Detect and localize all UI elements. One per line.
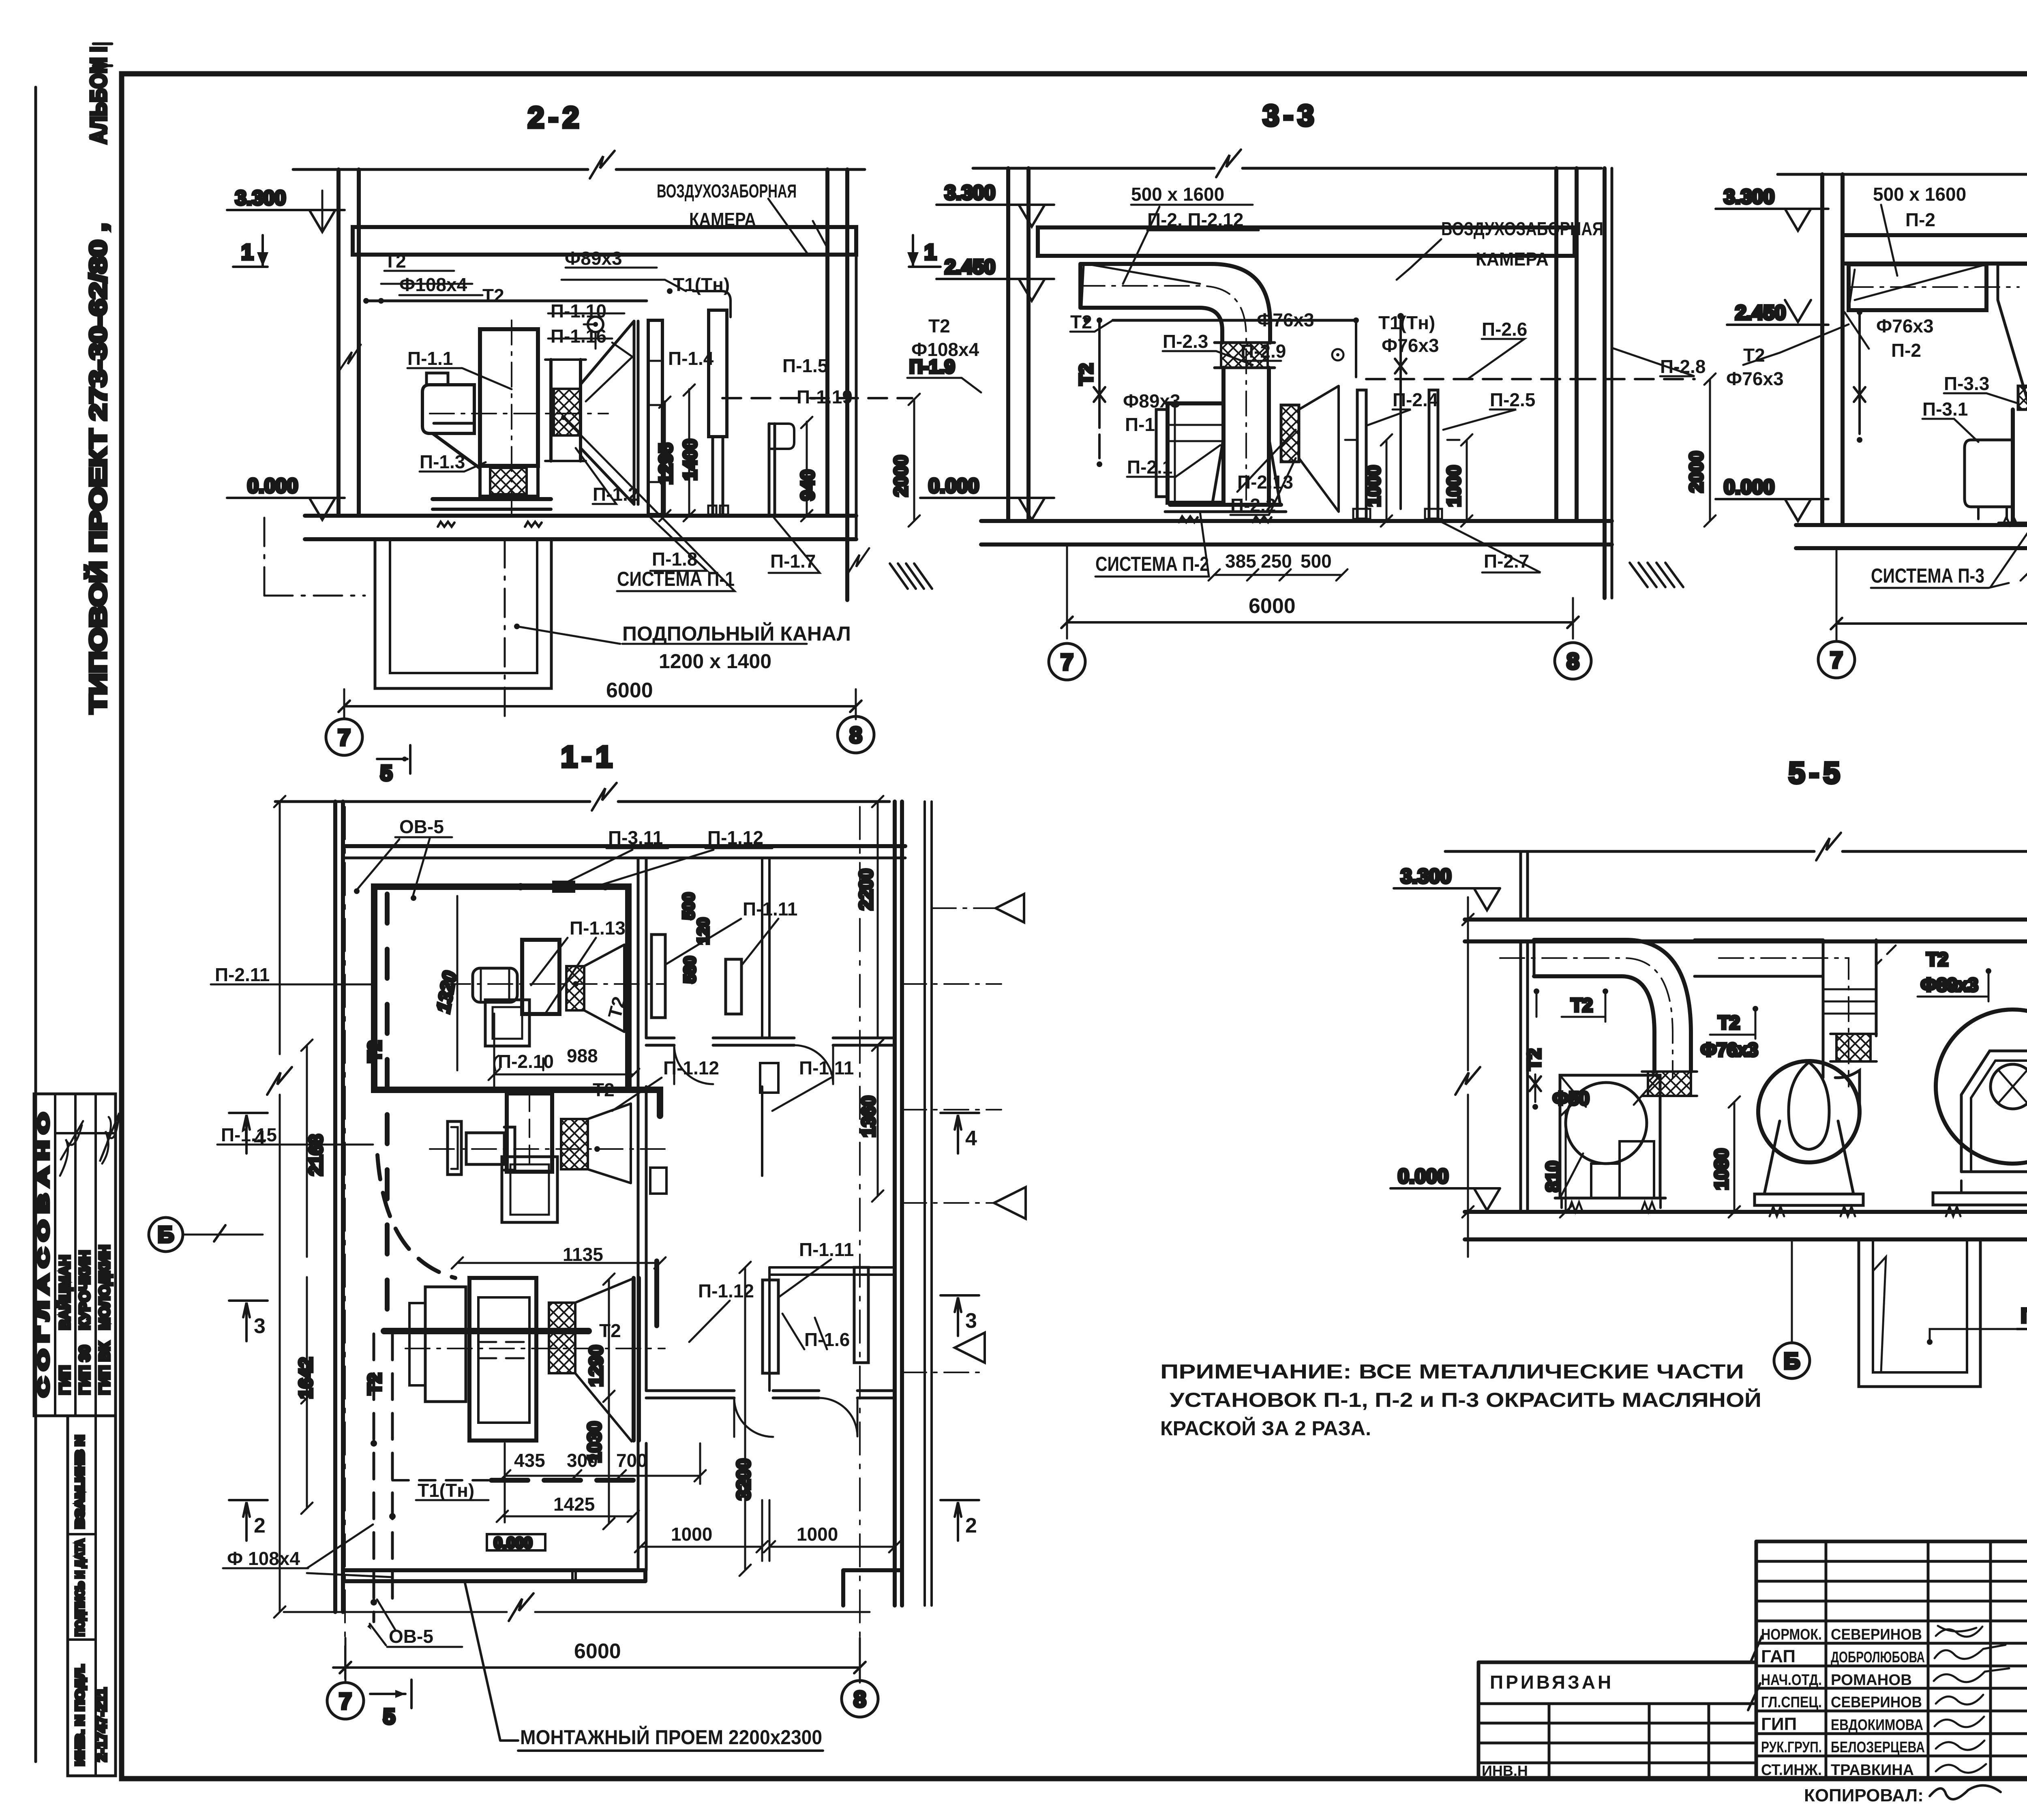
stands in corridor <box>651 935 665 1018</box>
fan1 motor <box>1620 1141 1654 1198</box>
floor slab <box>1465 1210 2027 1214</box>
fan A filter hatch <box>566 966 584 1010</box>
svg-text:П-3.1: П-3.1 <box>1922 399 1968 420</box>
base and springs <box>1170 503 1281 507</box>
svg-text:УСТАНОВОК П-1, П-2 и П-3 ОКРАС: УСТАНОВОК П-1, П-2 и П-3 ОКРАСИТЬ МАСЛЯН… <box>1170 1388 1761 1411</box>
svg-text:Ф76x3: Ф76x3 <box>1701 1039 1758 1060</box>
grid circles 7 8 <box>327 1683 364 1719</box>
svg-text:П-1.4: П-1.4 <box>668 348 714 369</box>
svg-text:СИСТЕМА П-2: СИСТЕМА П-2 <box>1095 553 1209 575</box>
svg-text:2: 2 <box>965 1514 977 1537</box>
labels 2-2 <box>384 180 853 702</box>
svg-text:Ф108x4: Ф108x4 <box>399 274 467 295</box>
svg-text:2-1747-211: 2-1747-211 <box>93 1688 109 1762</box>
leaders 3-3 <box>1070 205 1259 332</box>
ground hatch right <box>1630 563 1683 587</box>
pipe with valve left <box>1098 320 1101 428</box>
svg-text:Т1(Тн): Т1(Тн) <box>1378 312 1435 333</box>
svg-text:П-2.6: П-2.6 <box>1482 319 1527 340</box>
privyazan box <box>1478 1661 1756 1664</box>
grid axes chain <box>344 807 346 1683</box>
fan П-2.1 inlet cylinder <box>1221 368 1226 505</box>
fan П-3.1 cylinder <box>2011 409 2015 523</box>
fan B cone <box>588 1104 631 1183</box>
svg-text:П-1: П-1 <box>1125 414 1155 435</box>
svg-text:МОЛОДКИН: МОЛОДКИН <box>96 1245 113 1330</box>
floor slab <box>981 519 1612 523</box>
svg-text:П-2.10: П-2.10 <box>498 1051 554 1072</box>
svg-text:Т2: Т2 <box>1076 363 1097 385</box>
svg-text:500: 500 <box>680 892 698 920</box>
svg-text:435: 435 <box>514 1450 545 1471</box>
svg-text:П-2.11: П-2.11 <box>215 964 270 985</box>
floor slab <box>1796 523 2027 527</box>
svg-text:П-1.11: П-1.11 <box>799 1239 854 1260</box>
svg-text:1080: 1080 <box>1711 1149 1732 1190</box>
svg-text:ПОДПОЛЬНЫЙ КАНАЛ: ПОДПОЛЬНЫЙ КАНАЛ <box>2021 1304 2027 1327</box>
svg-text:ИНВ.Н: ИНВ.Н <box>1482 1762 1528 1779</box>
fan A square <box>485 1000 529 1046</box>
svg-text:1135: 1135 <box>563 1244 603 1265</box>
svg-text:П-2.3: П-2.3 <box>1163 331 1208 352</box>
fan C cone <box>575 1279 632 1441</box>
plan labels <box>215 816 854 1749</box>
svg-text:6000: 6000 <box>1249 594 1296 618</box>
svg-text:КРАСКОЙ ЗА 2 РАЗА.: КРАСКОЙ ЗА 2 РАЗА. <box>1160 1417 1371 1440</box>
supply duct with elbow <box>1080 264 1270 343</box>
svg-text:П-2.5: П-2.5 <box>1490 389 1535 410</box>
0.000 box <box>487 1534 545 1550</box>
dim 1080 fan2 <box>1733 1102 1736 1212</box>
svg-text:ГИП: ГИП <box>1761 1714 1797 1734</box>
fan B filter hatch <box>561 1119 588 1169</box>
leaders and underlines <box>357 837 452 897</box>
fan3 inner casing <box>1961 1051 2027 1172</box>
fan B square <box>502 1157 557 1222</box>
svg-text:5: 5 <box>380 761 392 785</box>
svg-text:7: 7 <box>1061 649 1073 675</box>
svg-text:385: 385 <box>1225 551 1256 572</box>
svg-text:3200: 3200 <box>733 1459 754 1500</box>
svg-text:6000: 6000 <box>606 679 653 702</box>
floor slab <box>305 514 856 518</box>
svg-text:0.000: 0.000 <box>1398 1165 1448 1188</box>
svg-text:ГИП 30: ГИП 30 <box>76 1345 93 1395</box>
stand П-1.4 ladder <box>648 320 662 514</box>
svg-text:НАЧ.ОТД.: НАЧ.ОТД. <box>1761 1672 1822 1689</box>
fan C filter hatch <box>549 1303 575 1373</box>
top chain line <box>275 800 889 803</box>
right secondary lines <box>924 802 926 1606</box>
svg-text:Т2: Т2 <box>1571 995 1593 1016</box>
svg-text:СТ.ИНЖ.: СТ.ИНЖ. <box>1761 1762 1822 1779</box>
svg-text:2000: 2000 <box>1686 451 1707 493</box>
svg-text:2.450: 2.450 <box>945 255 995 278</box>
left dim line <box>279 802 281 1612</box>
axis Б <box>1774 1343 1810 1378</box>
fan C motor <box>425 1287 466 1402</box>
svg-text:Т2: Т2 <box>1070 311 1092 332</box>
svg-text:КУРОЧКИН: КУРОЧКИН <box>76 1250 93 1330</box>
svg-text:6000: 6000 <box>574 1640 621 1663</box>
svg-text:1290: 1290 <box>585 1345 606 1387</box>
motor П-2.1 <box>1168 403 1223 503</box>
svg-text:РОМАНОВ: РОМАНОВ <box>1831 1672 1912 1689</box>
fan3 base <box>1961 1170 2027 1173</box>
svg-text:2: 2 <box>254 1514 266 1537</box>
svg-text:0.000: 0.000 <box>247 474 298 497</box>
svg-text:Ф108x4: Ф108x4 <box>911 339 979 360</box>
svg-text:П-1.1: П-1.1 <box>407 348 453 369</box>
stand П-1.19 <box>768 424 771 516</box>
fan1 casing <box>1560 1075 1660 1198</box>
svg-text:Ф76x3: Ф76x3 <box>1382 335 1439 356</box>
svg-text:2168: 2168 <box>305 1134 326 1176</box>
left dim line <box>1467 897 1469 1070</box>
svg-text:ГИП: ГИП <box>56 1366 73 1395</box>
label leaders 2-2 <box>384 268 657 389</box>
svg-text:ВОЗДУХОЗАБОРНАЯ: ВОЗДУХОЗАБОРНАЯ <box>657 180 797 202</box>
svg-text:Ф76x3: Ф76x3 <box>1876 315 1934 337</box>
svg-text:Т2: Т2 <box>1523 1048 1545 1070</box>
base feet springs <box>1999 522 2027 525</box>
svg-text:П-1.16: П-1.16 <box>551 326 606 347</box>
svg-text:П-1.12: П-1.12 <box>707 827 763 848</box>
signatures in soglasovano <box>60 1121 83 1176</box>
svg-text:8: 8 <box>849 722 862 748</box>
svg-text:ПОДПОЛЬНЫЙ КАНАЛ: ПОДПОЛЬНЫЙ КАНАЛ <box>622 622 851 645</box>
fan2 teardrop <box>1789 1062 1829 1149</box>
svg-text:ПРИВЯЗАН: ПРИВЯЗАН <box>1490 1672 1613 1693</box>
interior wall horizontal 3 <box>769 1267 895 1275</box>
svg-text:П-2.9: П-2.9 <box>1241 341 1286 362</box>
stand П-1.5 <box>709 310 727 437</box>
fan A centerline <box>446 983 665 985</box>
svg-text:2.450: 2.450 <box>1735 301 1786 324</box>
fan lower section with hatch П-1.3 <box>480 466 538 496</box>
underfloor channel 5-5 <box>1859 1239 1980 1387</box>
svg-text:2-2: 2-2 <box>528 101 583 134</box>
interior wall horizontal 1 <box>646 1038 895 1045</box>
svg-text:ИНВ. N ПОДЛ.: ИНВ. N ПОДЛ. <box>73 1664 87 1766</box>
svg-text:Т2: Т2 <box>593 1079 615 1100</box>
dim 1000 columns <box>1386 440 1388 521</box>
discharge cone <box>581 321 638 504</box>
left wall <box>336 169 341 516</box>
outer left wall <box>333 802 337 1612</box>
bottom wall with montage opening <box>343 1570 645 1581</box>
svg-text:Т1(Тн): Т1(Тн) <box>673 274 730 295</box>
dim 2000 left <box>913 399 915 521</box>
svg-text:4: 4 <box>965 1127 977 1150</box>
right wall <box>1554 168 1558 521</box>
svg-text:Т2: Т2 <box>384 251 406 272</box>
svg-text:1200 x 1400: 1200 x 1400 <box>659 650 771 673</box>
triangles right <box>996 894 1024 922</box>
filter П-3.3 hatch <box>2018 386 2027 409</box>
svg-text:3: 3 <box>965 1309 977 1333</box>
svg-text:0.000: 0.000 <box>494 1535 532 1552</box>
door arcs <box>674 1045 713 1084</box>
top chain line <box>1778 173 2027 176</box>
leaders 4-4 <box>1881 205 2027 284</box>
svg-text:7: 7 <box>338 725 350 750</box>
svg-text:Т2: Т2 <box>364 1040 385 1062</box>
svg-text:АЛЬБОМ I: АЛЬБОМ I <box>86 47 111 144</box>
svg-text:Б: Б <box>1784 1348 1800 1374</box>
svg-text:НОРМОК.: НОРМОК. <box>1761 1626 1822 1643</box>
ceiling beam <box>1038 227 1575 256</box>
bottom chain axis line <box>284 1611 870 1613</box>
funnel duct 500x1000 <box>1998 264 2027 409</box>
svg-text:0.000: 0.000 <box>928 474 979 497</box>
svg-text:П-2, П-2.12: П-2, П-2.12 <box>1147 209 1243 230</box>
svg-text:Ф76x3: Ф76x3 <box>1726 368 1784 389</box>
interior wall horizontal 2 <box>646 1391 895 1398</box>
svg-text:1425: 1425 <box>553 1494 595 1515</box>
left wall <box>1521 941 1528 1212</box>
left margin stamps <box>68 1416 116 1776</box>
svg-text:1400: 1400 <box>679 439 701 480</box>
svg-text:П-2.7: П-2.7 <box>1484 551 1529 572</box>
dim 2000 right <box>1709 379 1711 521</box>
T2 pipe line <box>1113 319 1356 322</box>
svg-text:П-2.1: П-2.1 <box>1127 457 1172 478</box>
ceiling slab <box>1465 918 2027 922</box>
svg-text:РУК.ГРУП.: РУК.ГРУП. <box>1761 1739 1822 1756</box>
svg-text:Т2: Т2 <box>364 1373 385 1395</box>
svg-text:1000: 1000 <box>1363 465 1384 507</box>
svg-text:7: 7 <box>1830 647 1843 673</box>
svg-text:П-1.19: П-1.19 <box>797 386 853 407</box>
T1 line <box>491 1478 633 1483</box>
6000 dim <box>1836 622 2027 625</box>
soglasovano table <box>34 1094 116 1416</box>
fan1 base springs <box>1555 1197 1665 1200</box>
small circle П-2.9 <box>1332 349 1343 360</box>
svg-text:1000: 1000 <box>797 1524 838 1545</box>
svg-text:250: 250 <box>1261 551 1292 572</box>
right chain extensions <box>902 983 1001 985</box>
svg-text:П-2: П-2 <box>1891 340 1921 361</box>
svg-text:Б: Б <box>158 1222 174 1247</box>
svg-text:ГИП ВК: ГИП ВК <box>96 1342 113 1395</box>
svg-text:1-1: 1-1 <box>561 740 617 774</box>
svg-text:П-1.5: П-1.5 <box>782 355 828 376</box>
outer right wall <box>1603 168 1607 598</box>
staff signatures <box>1936 1626 1982 1637</box>
svg-text:КАМЕРА: КАМЕРА <box>1476 249 1549 270</box>
svg-text:500 x 1600: 500 x 1600 <box>1131 184 1224 205</box>
right vertical dims <box>608 1279 610 1524</box>
labels 4-4 <box>1726 184 2027 624</box>
svg-text:1: 1 <box>924 240 936 264</box>
svg-text:ПРИМЕЧАНИЕ: ВСЕ МЕТАЛЛИЧЕСКИЕ: ПРИМЕЧАНИЕ: ВСЕ МЕТАЛЛИЧЕСКИЕ ЧАСТИ <box>1160 1360 1744 1383</box>
svg-text:КАМЕРА: КАМЕРА <box>689 209 756 230</box>
motor of П-1.1 <box>422 385 474 433</box>
pipes T2 <box>366 300 647 302</box>
svg-text:Т2: Т2 <box>1926 949 1948 970</box>
svg-text:П-3.11: П-3.11 <box>608 827 663 848</box>
fan A cone <box>584 945 624 1032</box>
svg-text:1295: 1295 <box>655 443 676 484</box>
svg-text:П-3.3: П-3.3 <box>1944 373 1989 394</box>
axis B circle <box>149 1218 183 1252</box>
grid circles 7 8 <box>326 719 362 755</box>
svg-text:1000: 1000 <box>1443 465 1464 507</box>
fan B centerline <box>430 1148 665 1150</box>
grid circles <box>1818 641 1855 678</box>
flex connector hatch П-2.3 <box>1221 343 1268 368</box>
fan2 scroll <box>1758 1061 1860 1162</box>
fan A box <box>522 940 559 1014</box>
svg-text:500: 500 <box>1301 551 1332 572</box>
svg-text:Т2: Т2 <box>482 285 504 306</box>
fan B motor block <box>466 1133 504 1164</box>
svg-text:ГЛ.СПЕЦ.: ГЛ.СПЕЦ. <box>1761 1694 1822 1711</box>
svg-text:С О Г Л А С О В А Н О: С О Г Л А С О В А Н О <box>35 1113 52 1397</box>
6000 dim line <box>344 705 856 707</box>
svg-text:500 x 1600: 500 x 1600 <box>1873 184 1966 205</box>
left wall <box>1820 174 1824 525</box>
dashed risers f108 <box>373 1334 375 1622</box>
svg-text:П-1.11: П-1.11 <box>743 898 797 920</box>
svg-text:Ф76x3: Ф76x3 <box>1257 309 1314 330</box>
svg-text:3.300: 3.300 <box>235 187 286 209</box>
discharge cone <box>1299 386 1339 512</box>
dimension verticals 1295 1400 940 <box>664 401 666 516</box>
svg-text:ТИПОВОЙ ПРОЕКТ 273-30-62/80 ,: ТИПОВОЙ ПРОЕКТ 273-30-62/80 , <box>85 223 111 714</box>
fan2 filter hatch <box>1836 1034 1871 1061</box>
svg-text:3.300: 3.300 <box>1724 185 1774 208</box>
ground hatch left <box>890 564 932 589</box>
filter П-2.13 hatch <box>1281 405 1299 462</box>
svg-text:Т1(Тн): Т1(Тн) <box>418 1480 474 1501</box>
svg-text:ТРАВКИНА: ТРАВКИНА <box>1831 1762 1914 1779</box>
dim 810 fan1 <box>1565 1111 1567 1212</box>
supply duct 500x1600 <box>1849 264 1986 310</box>
svg-text:П-1.12: П-1.12 <box>663 1057 719 1078</box>
grid circles <box>1049 643 1085 680</box>
top chain line <box>973 167 1601 170</box>
svg-text:4: 4 <box>254 1127 266 1150</box>
title block outer + staff table <box>1756 1540 2027 1543</box>
dashed line П-1.9 <box>722 397 912 399</box>
fan C centerline <box>405 1348 665 1349</box>
fan1 filter hatch <box>1648 1072 1691 1096</box>
svg-text:П-1.3: П-1.3 <box>420 451 465 472</box>
svg-text:ГАП: ГАП <box>1761 1646 1796 1666</box>
left pipe T2 f76 <box>1858 312 1861 434</box>
svg-text:ДОБРОЛЮБОВА: ДОБРОЛЮБОВА <box>1831 1649 1925 1666</box>
svg-text:3.300: 3.300 <box>1401 865 1451 887</box>
svg-text:2000: 2000 <box>890 455 911 497</box>
ceiling beam <box>353 227 856 255</box>
svg-text:1320: 1320 <box>433 970 461 1014</box>
dashed line П-2.8 <box>1366 378 1595 380</box>
svg-text:КОПИРОВАЛ:: КОПИРОВАЛ: <box>1804 1786 1924 1805</box>
filter frame П-1.2 <box>549 360 553 461</box>
fan3 scroll big <box>1936 1010 2027 1164</box>
svg-text:Т2: Т2 <box>1743 345 1765 366</box>
1000 dims <box>635 1541 768 1552</box>
svg-text:1030: 1030 <box>584 1421 605 1463</box>
svg-text:МОНТАЖНЫЙ ПРОЕМ 2200x2300: МОНТАЖНЫЙ ПРОЕМ 2200x2300 <box>520 1726 822 1749</box>
svg-text:П-2: П-2 <box>1905 209 1935 230</box>
top chain line <box>1445 850 2027 853</box>
underfloor channel <box>375 539 551 688</box>
svg-text:П-1.8: П-1.8 <box>652 549 697 570</box>
svg-text:3: 3 <box>254 1314 266 1338</box>
svg-text:Т2: Т2 <box>1718 1012 1740 1033</box>
svg-text:3.300: 3.300 <box>945 181 995 204</box>
svg-text:БЕЛОЗЕРЦЕВА: БЕЛОЗЕРЦЕВА <box>1831 1739 1925 1756</box>
right wall <box>893 802 897 1606</box>
right wall columns <box>825 169 829 516</box>
svg-text:Ф89x3: Ф89x3 <box>565 248 622 269</box>
svg-text:П-1.11: П-1.11 <box>799 1057 854 1078</box>
thick dashed T2 riser <box>385 894 390 1330</box>
svg-text:СИСТЕМА П-3: СИСТЕМА П-3 <box>1871 564 1984 587</box>
svg-text:Т2: Т2 <box>928 315 950 337</box>
motor <box>1965 440 2013 507</box>
svg-text:ВАЙЦМАН: ВАЙЦМАН <box>56 1255 73 1330</box>
svg-text:1: 1 <box>241 240 253 264</box>
page edge line <box>34 87 37 1762</box>
svg-text:П-1.13: П-1.13 <box>570 918 626 939</box>
top chain line <box>293 168 865 171</box>
dashed arc duct <box>377 1155 455 1278</box>
fan A motor <box>473 968 517 1002</box>
labels 3-3 <box>911 184 1706 618</box>
svg-text:1000: 1000 <box>671 1524 712 1545</box>
svg-text:5: 5 <box>383 1704 395 1729</box>
base plate and springs <box>433 497 551 501</box>
svg-text:810: 810 <box>1542 1161 1563 1192</box>
note text <box>1160 1360 1761 1440</box>
fan2 pedestal <box>1764 1121 1853 1194</box>
dim lines plan <box>306 1045 308 1508</box>
interior wall vertical 2 <box>762 858 769 1391</box>
svg-text:ВОЗДУХОЗАБОРНАЯ: ВОЗДУХОЗАБОРНАЯ <box>1441 218 1603 239</box>
svg-text:Т2: Т2 <box>599 1320 621 1341</box>
ceiling beam <box>1843 235 2027 264</box>
fan C box <box>469 1278 536 1441</box>
svg-text:ПОДПИСЬ И ДАТА: ПОДПИСЬ И ДАТА <box>73 1539 87 1636</box>
6000 dim bottom <box>333 1666 860 1669</box>
svg-text:СЕВЕРИНОВ: СЕВЕРИНОВ <box>1831 1626 1922 1643</box>
svg-text:ВЗАМ.ИНВ N: ВЗАМ.ИНВ N <box>73 1435 87 1528</box>
stands П-2.4 П-2.5 <box>1357 390 1366 519</box>
fan2 duct <box>1695 940 1823 976</box>
svg-text:988: 988 <box>567 1045 598 1066</box>
svg-text:3-3: 3-3 <box>1263 99 1318 132</box>
svg-text:5-5: 5-5 <box>1789 756 1844 790</box>
fan unit П-1.1 <box>480 329 538 466</box>
svg-text:П-2.4: П-2.4 <box>1393 389 1438 410</box>
svg-text:8: 8 <box>853 1686 866 1712</box>
columns above slab <box>1521 851 2027 920</box>
T1 pipe right <box>1399 320 1402 509</box>
svg-text:1360: 1360 <box>858 1096 879 1137</box>
fan B box <box>507 1093 552 1172</box>
svg-text:940: 940 <box>797 469 818 501</box>
staff labels <box>1761 1626 1925 1779</box>
svg-text:8: 8 <box>1566 648 1579 674</box>
interior wall vertical 1 <box>638 858 646 1570</box>
svg-text:580: 580 <box>681 956 699 983</box>
thick duct loop <box>374 887 628 1090</box>
